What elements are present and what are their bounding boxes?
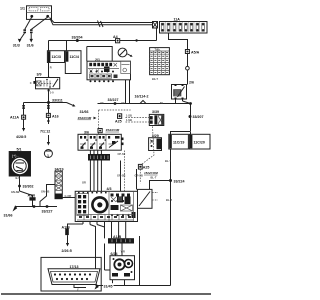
svg-text:11A: 11A [174, 18, 181, 22]
wire distribution line left [24, 102, 67, 104]
callout circle 1 [44, 150, 52, 158]
node at 2/6 right pin [182, 100, 184, 102]
wire fuse 11A to A5/A [169, 33, 188, 50]
terminal box feed 11A [153, 22, 158, 29]
svg-text:GN-SB: GN-SB [41, 189, 49, 193]
diode chain 34/19 [55, 167, 64, 198]
svg-text:11C/4: 11C/4 [70, 55, 79, 59]
svg-text:15A/COM: 15A/COM [106, 128, 120, 132]
relay 3/29 [149, 134, 162, 150]
svg-text:Y-R: Y-R [121, 250, 125, 254]
svg-text:GR-SB: GR-SB [117, 174, 125, 178]
connector bar below 3/6 [89, 150, 91, 154]
wire battery right terminal to ground 31/6 [31, 17, 47, 29]
svg-text:R: R [50, 66, 52, 70]
battery 1/1 [20, 6, 52, 20]
fuse 11C/19 [169, 134, 189, 149]
svg-text:33/224: 33/224 [174, 180, 185, 184]
svg-text:C: C [30, 81, 32, 85]
wire chain to ground line [40, 185, 55, 207]
data link connector 17/13 [48, 265, 100, 292]
connector A16 branch [40, 103, 59, 159]
lamp symbol circle with slash [118, 48, 133, 57]
ignition switch 2/6 [172, 81, 195, 100]
enclosure 6/24 [139, 236, 141, 286]
svg-text:31/45: 31/45 [104, 284, 113, 288]
svg-text:31/3: 31/3 [13, 44, 20, 48]
wire to 2/26:5 with connector A1/B [68, 224, 84, 229]
svg-text:33/204: 33/204 [72, 36, 83, 40]
svg-text:1/1: 1/1 [20, 7, 25, 11]
wires A1/B to 6/24 [115, 244, 117, 256]
svg-text:2/26:5: 2/26:5 [62, 249, 72, 253]
fuse box 11A [160, 18, 208, 34]
svg-text:33/227: 33/227 [108, 98, 119, 102]
wires 4/3 bottom pins [82, 222, 84, 225]
svg-text:33/227: 33/227 [42, 210, 53, 214]
svg-text:4/3: 4/3 [107, 187, 112, 191]
svg-text:33/302: 33/302 [23, 185, 34, 189]
svg-text:15A/COM: 15A/COM [78, 116, 92, 120]
wires 6/24 to ground line [112, 280, 114, 286]
svg-text:7/1:12: 7/1:12 [40, 129, 50, 133]
relay 3/39 [149, 110, 164, 125]
svg-text:31/66: 31/66 [80, 110, 89, 114]
svg-text:2/6: 2/6 [189, 81, 194, 85]
svg-text:GR-SB: GR-SB [135, 174, 143, 178]
wires 4/3 to ground [90, 225, 96, 286]
svg-text:A25: A25 [115, 120, 122, 124]
svg-text:5/1: 5/1 [17, 148, 22, 152]
wire battery left terminal to ground 31/3 [25, 17, 32, 29]
svg-text:G-OR: G-OR [65, 194, 72, 198]
connector A1/6 [20, 191, 33, 207]
wire thick feed to block 2/1 [87, 47, 112, 62]
svg-text:11C/20: 11C/20 [194, 141, 205, 145]
page border bottom [1, 293, 211, 295]
svg-text:B-S: B-S [16, 176, 21, 180]
svg-text:A1/6: A1/6 [28, 193, 36, 197]
svg-text:GN-SB: GN-SB [11, 190, 19, 194]
node 33/311 [47, 101, 50, 104]
gauge 5/1 [9, 148, 30, 177]
ignition switch assembly 4/3 [75, 187, 137, 221]
node 33/224 [169, 179, 172, 182]
svg-text:11C/19: 11C/19 [173, 141, 184, 145]
wire relay 3/9 to node 33/311 [48, 89, 50, 103]
svg-text:3/9: 3/9 [37, 73, 42, 77]
svg-text:16/114-2: 16/114-2 [135, 95, 149, 99]
wire 33/204 [49, 40, 157, 42]
svg-text:Y: Y [77, 288, 79, 292]
svg-text:(+) -: (+) - [12, 154, 19, 158]
svg-text:BL-T: BL-T [151, 176, 157, 180]
svg-text:Tillb.: Tillb. [155, 47, 161, 51]
svg-text:31/6: 31/6 [27, 44, 34, 48]
svg-text:1-0: 1-0 [50, 91, 54, 95]
relay block 3/6 [78, 129, 124, 151]
wires bar to 4/3 [89, 161, 91, 192]
svg-text:CP-S9: CP-S9 [118, 152, 126, 156]
key switch attachment [138, 189, 153, 208]
connector A25 [118, 114, 122, 119]
svg-text:33/311: 33/311 [52, 99, 63, 103]
svg-text:1-SB: 1-SB [126, 118, 132, 122]
svg-text:A5/A: A5/A [191, 50, 200, 54]
fuse 11C/3 [47, 41, 64, 78]
enclosure 17/13 [41, 257, 101, 291]
ground line bottom [96, 285, 171, 287]
dashed wires to 3/39 [126, 117, 150, 119]
relay 3/9 [30, 73, 60, 89]
svg-text:6/24: 6/24 [111, 252, 118, 256]
legend table [150, 47, 170, 81]
fuse 11C/4 [65, 41, 81, 74]
connector A25 lower [138, 164, 142, 169]
svg-text:A11A: A11A [10, 116, 19, 120]
wire 11C/19 down [170, 149, 172, 286]
svg-text:Bb-T: Bb-T [152, 77, 158, 81]
node 33/207 [189, 115, 192, 118]
svg-text:A16: A16 [52, 114, 59, 118]
svg-text:4/28:5: 4/28:5 [16, 135, 26, 139]
svg-text:1: 1 [47, 154, 49, 158]
connector A5/A [185, 50, 189, 54]
ignition feed block 2/1 [87, 58, 131, 82]
wire chain to 4/3 [62, 197, 75, 199]
horn 6/24 [110, 252, 135, 280]
svg-text:15A/COM: 15A/COM [144, 171, 158, 175]
connector A11A branch [10, 103, 26, 140]
wires block 2/1 down to main line [125, 80, 127, 104]
wire thick battery cable to 11A [50, 18, 153, 23]
ground ref 31/66 arrow [67, 103, 74, 106]
wire main hot at y103 [98, 103, 191, 105]
svg-text:31/66: 31/66 [4, 213, 13, 217]
ground 31/66 bottom [13, 205, 18, 211]
svg-text:BL-T: BL-T [165, 159, 171, 163]
wire ground line 33/227 [16, 206, 57, 208]
svg-text:3/39: 3/39 [152, 110, 159, 114]
svg-text:OR: OR [82, 181, 86, 185]
wire A5/A down to 2/6 [187, 54, 189, 67]
svg-text:1-SB: 1-SB [126, 114, 132, 118]
wire 33/224 branch left [150, 181, 171, 190]
svg-text:BL-T: BL-T [166, 198, 172, 202]
svg-text:11C/3: 11C/3 [52, 55, 61, 59]
svg-text:A25: A25 [143, 166, 150, 170]
fuse 11C/20 [189, 134, 210, 149]
svg-text:33/207: 33/207 [193, 115, 204, 119]
wire 2/6 left pin to main line [175, 100, 177, 104]
wire gauge to node 33/302 [19, 176, 21, 191]
